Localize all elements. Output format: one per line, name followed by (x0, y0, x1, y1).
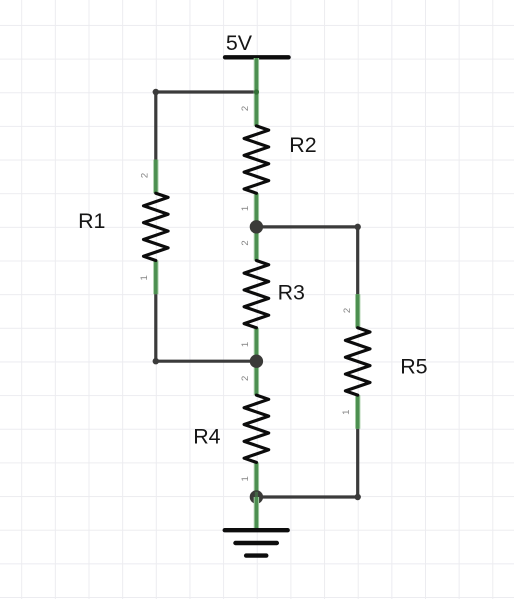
svg-text:5V: 5V (226, 31, 253, 55)
svg-text:1: 1 (240, 342, 251, 347)
node top-right bend (355, 224, 361, 230)
ground (225, 492, 288, 556)
power supply 5V (225, 57, 288, 92)
node junction 5V/R1/R2 (254, 89, 259, 94)
label R5 (400, 355, 427, 379)
svg-text:1: 1 (139, 275, 150, 280)
node junction R3/R4 (250, 355, 263, 368)
svg-text:1: 1 (240, 206, 251, 211)
svg-text:R3: R3 (278, 281, 305, 305)
label R2 (289, 133, 316, 157)
svg-text:1: 1 (341, 410, 352, 415)
node top-left bend (153, 89, 159, 95)
label R4 (193, 424, 220, 448)
svg-text:2: 2 (139, 173, 150, 178)
wire (156, 92, 257, 160)
wire (256, 429, 357, 497)
wire (156, 294, 257, 361)
svg-text:1: 1 (240, 476, 251, 481)
wire (256, 227, 357, 294)
label 5V (226, 31, 253, 55)
label R3 (278, 281, 305, 305)
svg-text:R4: R4 (193, 424, 220, 448)
svg-text:R5: R5 (400, 355, 427, 379)
node bottom-left bend (153, 358, 159, 364)
node bottom-right bend (355, 494, 361, 500)
svg-text:2: 2 (342, 308, 353, 313)
resistor R5 (341, 294, 370, 429)
svg-text:R1: R1 (78, 209, 105, 233)
svg-text:2: 2 (240, 240, 251, 245)
resistor R1 (139, 160, 168, 295)
svg-text:R2: R2 (289, 133, 316, 157)
svg-text:2: 2 (240, 376, 251, 381)
node junction R2/R3 (250, 220, 263, 233)
node junction R4/ground (250, 490, 263, 503)
resistor R2 (240, 92, 269, 227)
label R1 (78, 209, 105, 233)
svg-text:2: 2 (240, 106, 251, 111)
resistor R3 (240, 227, 269, 361)
resistor R4 (240, 361, 269, 497)
